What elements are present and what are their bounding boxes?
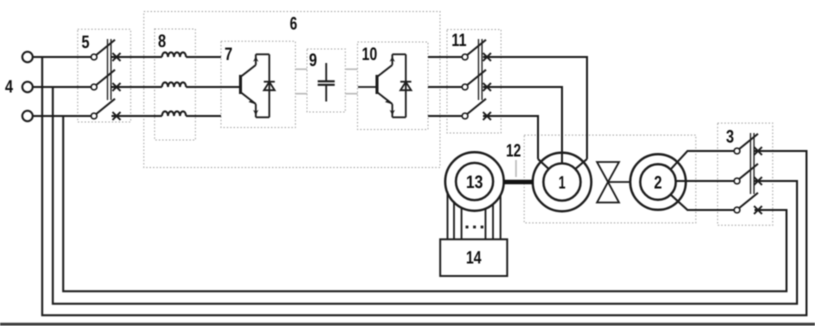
svg-text:12: 12	[506, 141, 521, 161]
machine 13 (dc machine) outer circle	[445, 152, 504, 211]
coupling lower triangle	[597, 182, 619, 203]
switch 11 linkage bar right	[481, 39, 483, 100]
box 14 (resistor bank)	[440, 239, 507, 276]
dc-link stub 9 to 10 (upper)	[345, 68, 357, 70]
wire switch 3 top pole to outer loop	[42, 57, 806, 315]
ellipsis dot 3	[481, 226, 484, 229]
wire box 10 to switch 11 L3	[428, 115, 462, 117]
diode D7 cathode bar	[264, 81, 275, 83]
switch 3 linkage bar left	[750, 133, 752, 194]
switch 11 pole contact circle a	[462, 54, 468, 60]
switch 11 blade c	[467, 99, 486, 114]
svg-text:3: 3	[726, 127, 734, 147]
IGBT U10 collector arrow (up)	[390, 57, 395, 62]
switch 11 breaker X a	[483, 53, 491, 61]
wire switch 3 bottom pole to inner loop	[63, 116, 786, 291]
switch 5 linkage bar left	[107, 39, 109, 100]
switch 11 pole contact circle b	[462, 84, 468, 90]
rotor lead 2 of machine 13	[453, 201, 455, 239]
wire L3 terminal to switch 5	[33, 115, 91, 117]
wire L1 terminal to switch 5	[33, 56, 91, 58]
svg-text:14: 14	[466, 248, 482, 268]
svg-text:4: 4	[5, 77, 13, 97]
IGBT U10 base bar	[376, 75, 379, 94]
IGBT U7 right rail with diode gap	[268, 54, 270, 117]
wire switch 11 top pole to machine 1 (down at x=587)	[483, 57, 587, 159]
dc-link stub 7 to 9 (upper)	[295, 68, 307, 70]
switch 5 blade a	[96, 40, 115, 55]
switch 11 blade b	[467, 70, 486, 85]
IGBT U7 emitter diagonal	[241, 93, 256, 105]
IGBT U7 emitter vertical	[255, 104, 257, 117]
switch 5 blade b	[96, 70, 115, 85]
IGBT U7 emitter arrow (on diagonal)	[249, 100, 255, 104]
switch 3 breaker X a	[754, 147, 762, 155]
IGBT U10 collector vertical	[391, 54, 393, 65]
wire switch 11 bottom pole to machine 1 (down at x=538)	[483, 116, 538, 159]
transistor-diode module in box 7	[241, 54, 275, 117]
dashed box switch 11	[447, 30, 501, 134]
svg-text:1: 1	[559, 173, 566, 193]
svg-text:5: 5	[82, 32, 90, 52]
inductor 8c	[162, 111, 186, 116]
ellipsis dot 1	[466, 226, 469, 229]
input terminal L2	[22, 82, 32, 92]
IGBT U10 right rail	[405, 54, 407, 117]
input terminal L1	[22, 52, 32, 62]
coupling shaft to machine 2	[608, 181, 631, 183]
dashed enclosure box 6 (converter unit)	[144, 12, 440, 168]
IGBT U10 collector diagonal	[378, 65, 393, 77]
wire box 10 to switch 11 L1	[428, 56, 462, 58]
switch 3 blade c	[739, 193, 758, 208]
svg-text:9: 9	[309, 50, 317, 70]
svg-text:2: 2	[654, 173, 662, 193]
IGBT U7 collector arrow (up)	[253, 57, 258, 62]
machine 2 inner circle	[640, 164, 676, 200]
shaft 12 (thick) between 13 and 1	[504, 180, 534, 184]
switch 11 linkage bar left	[478, 39, 480, 100]
IGBT U7 top rail	[256, 53, 269, 55]
machine 2 stator lead middle	[676, 180, 735, 182]
fan-in wire to machine 1 stator left	[538, 159, 549, 169]
switch 5 pole contact circle a	[91, 54, 97, 60]
transistor-diode module in box 10	[358, 54, 411, 117]
capacitor C9 top lead	[325, 63, 327, 81]
wire switch 11 mid pole to machine 1 (down at x=562)	[483, 87, 562, 164]
switch 5 linkage bar right	[110, 39, 112, 100]
IGBT U10 emitter arrow (down)	[390, 110, 395, 115]
inductor 8b	[162, 82, 186, 87]
machine 2 outer circle	[630, 154, 686, 210]
dashed box 9 (dc link)	[307, 49, 345, 112]
wire box 10 to switch 11 L2	[428, 86, 462, 88]
bottom separator rule	[0, 323, 815, 326]
dashed box 7 (rectifier)	[221, 41, 295, 127]
svg-text:6: 6	[290, 14, 298, 34]
switch 11 pole contact circle c	[462, 113, 468, 119]
rotor lead 3 of machine 13	[461, 207, 463, 239]
diode D10 triangle	[401, 82, 412, 90]
switch 5 pole contact circle b	[91, 84, 97, 90]
switch 5 breaker X a	[113, 53, 121, 61]
svg-text:13: 13	[466, 172, 483, 192]
dashed box machine set (1, coupling, 2)	[524, 135, 696, 223]
IGBT U10 emitter arrow (on diagonal)	[385, 100, 391, 104]
capacitor C9 top plate	[318, 80, 335, 82]
switch 5 pole contact circle c	[91, 113, 97, 119]
switch 11 breaker X b	[483, 83, 491, 91]
ellipsis dot 2	[473, 226, 476, 229]
IGBT U10 emitter diagonal	[378, 93, 393, 105]
input terminal L3	[22, 111, 32, 121]
fan-in wire to machine 1 stator right	[575, 159, 587, 169]
dashed box 8 (reactor group)	[155, 29, 196, 140]
svg-text:7: 7	[225, 44, 233, 64]
IGBT U7 emitter arrow (down)	[253, 110, 258, 115]
switch 11 blade a	[467, 40, 486, 55]
dashed box 10 (inverter)	[358, 42, 429, 130]
IGBT U7 collector vertical	[255, 54, 257, 65]
rotor lead 5 of machine 13	[492, 204, 494, 239]
rotor lead 6 of machine 13	[500, 195, 502, 239]
wire switch 3 middle pole to middle loop	[53, 87, 797, 304]
IGBT U10 bottom rail	[392, 116, 406, 118]
wire reactor to box 7 L2 (into base of transistor)	[186, 86, 241, 88]
diode D7 triangle	[264, 82, 275, 90]
switch 11	[462, 39, 491, 120]
dashed box switch 5	[78, 29, 131, 122]
capacitor C9 bottom lead	[325, 85, 327, 102]
IGBT U10 emitter vertical	[391, 104, 393, 117]
leader line for label 12	[515, 160, 517, 177]
switch 5 blade c	[96, 99, 115, 114]
switch 3 linkage bar right	[753, 133, 755, 194]
machine 13 inner circle	[456, 163, 493, 200]
switch 5	[91, 39, 120, 120]
wire reactor to box 7 L3	[186, 115, 221, 117]
inductor 8a	[162, 52, 186, 57]
rotor lead 4 of machine 13	[485, 208, 487, 239]
dashed box switch 3	[718, 123, 773, 225]
wire switch 5 to reactor L2	[112, 86, 163, 88]
dc-link stub 9 to 10 (lower)	[345, 93, 357, 95]
switch 11 breaker X c	[483, 112, 491, 120]
switch 3 blade a	[739, 134, 758, 149]
wire switch 5 to reactor L1	[112, 56, 163, 58]
switch 5 breaker X b	[113, 83, 121, 91]
wire switch 5 to reactor L3	[112, 115, 163, 117]
capacitor C9	[318, 63, 335, 102]
svg-text:8: 8	[158, 31, 166, 51]
capacitor C9 bottom plate	[318, 84, 335, 86]
machine 2 stator lead top	[671, 151, 735, 170]
switch 3 pole contact circle c	[734, 207, 740, 213]
IGBT U10 base lead	[358, 86, 377, 88]
diode D10 cathode bar	[400, 81, 411, 83]
switch 3 pole contact circle b	[734, 178, 740, 184]
dc-link stub 7 to 9 (lower)	[295, 93, 307, 95]
IGBT U7 collector diagonal	[241, 65, 256, 77]
switch 3 breaker X c	[754, 206, 762, 214]
coupling upper triangle	[597, 162, 619, 182]
svg-text:10: 10	[362, 44, 378, 64]
IGBT U7 base bar	[239, 75, 242, 94]
wire reactor to box 7 L1	[186, 56, 221, 58]
switch 3 breaker X b	[754, 177, 762, 185]
machine 1 outer circle	[533, 153, 592, 212]
svg-text:11: 11	[452, 30, 467, 50]
switch 5 breaker X c	[113, 112, 121, 120]
IGBT U7 bottom rail	[256, 116, 269, 118]
switch 3 pole contact circle a	[734, 148, 740, 154]
switch 3	[734, 133, 762, 214]
switch 3 blade b	[739, 164, 758, 179]
machine 1 inner circle	[543, 163, 580, 200]
machine 2 stator lead bottom	[671, 195, 735, 211]
IGBT U10 top rail	[392, 53, 406, 55]
wire L2 terminal to switch 5	[33, 86, 91, 88]
rotor lead 1 of machine 13	[447, 192, 449, 240]
